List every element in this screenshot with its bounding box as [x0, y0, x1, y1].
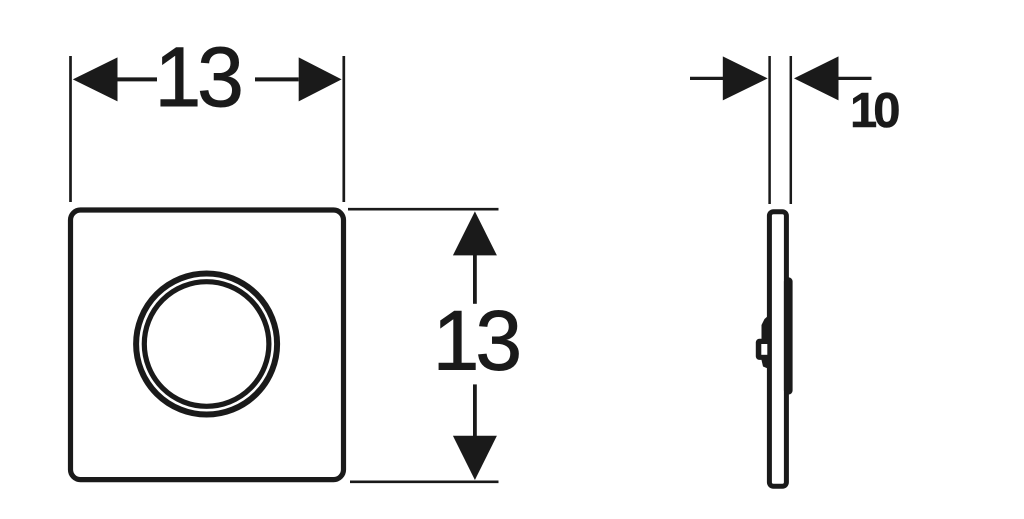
right dimension: bottom arrow — [453, 436, 497, 480]
side view: tab white notch — [761, 344, 767, 355]
right dimension: lower line segment — [473, 384, 477, 436]
side dimension: right arrow — [794, 56, 839, 100]
svg-text:13: 13 — [154, 30, 241, 124]
top dimension: right arrow — [299, 57, 342, 101]
side view: mounting tab — [756, 339, 769, 360]
svg-text:13: 13 — [433, 294, 520, 388]
side dimension: left extension line — [768, 56, 771, 204]
side dimension: right tail line — [839, 77, 872, 80]
top dimension: right extension line — [342, 56, 345, 202]
right dimension: upper line segment — [473, 255, 477, 304]
side view: profile outline — [769, 212, 786, 487]
top dimension: left extension line — [69, 56, 72, 202]
side view: rear bulge band — [784, 277, 793, 394]
side dimension: right extension line — [790, 56, 793, 204]
front view: button inner ring — [144, 282, 269, 407]
svg-text:10: 10 — [850, 84, 899, 138]
top dimension: left arrow — [73, 57, 118, 101]
top dimension: left line segment — [117, 77, 157, 81]
right dimension: top extension line — [348, 208, 499, 211]
right dimension: top arrow — [453, 211, 497, 255]
side view: rear left sliver — [762, 315, 770, 369]
front view: plate outline — [71, 210, 344, 480]
side dimension: left arrow — [723, 56, 768, 100]
front view: button outer ring — [136, 274, 277, 415]
side dimension: left tail line — [690, 77, 723, 80]
top dimension: right line segment — [255, 77, 299, 81]
right dimension: bottom extension line — [350, 480, 499, 483]
